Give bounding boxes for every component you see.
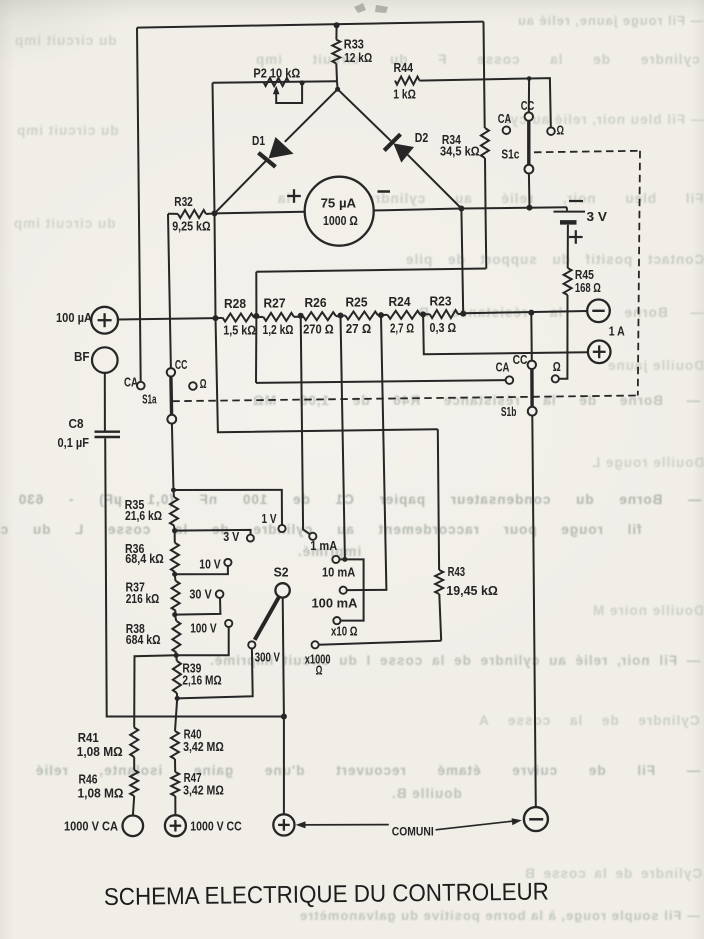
capacitor C8 [95, 432, 121, 437]
wire 3V tap [175, 530, 251, 535]
wire R40-R47 [174, 759, 176, 772]
switch S1a CC contact [167, 368, 175, 376]
wire R47 to 1000VCC terminal [174, 796, 176, 814]
wire: R44 net down to S1c CC contact [528, 79, 530, 113]
label R32 value 9,25 kΩ [172, 220, 210, 234]
contact 100 mA [340, 587, 347, 594]
arrow COMUNI to - terminal [436, 818, 522, 830]
svg-text:x10 Ω: x10 Ω [331, 624, 358, 638]
switch S1c moving contact circle [525, 165, 534, 174]
svg-text:CA: CA [496, 360, 510, 374]
svg-text:R44: R44 [394, 61, 414, 75]
svg-text:R25: R25 [346, 296, 368, 310]
svg-text:1 kΩ: 1 kΩ [393, 87, 416, 101]
wire: bridge right corner down to R23 right end [461, 209, 463, 314]
node: chain left end junction [213, 315, 219, 321]
switch S1b omega contact [552, 375, 559, 382]
switch S1c CC contact [525, 112, 533, 120]
wire down to +COMUNI terminal [283, 717, 285, 814]
label battery - sign [569, 200, 583, 202]
wire: R33 bottom to bridge apex [336, 81, 339, 89]
wire x1000 contact to R43 bottom [319, 641, 442, 645]
svg-text:R27: R27 [264, 297, 286, 311]
node J5 [174, 653, 179, 658]
svg-text:2,16 MΩ: 2,16 MΩ [182, 674, 221, 688]
selector S2 wiper arm to 300V position [255, 597, 279, 640]
wire 1V tap [174, 490, 283, 525]
wire: R44 right lead to S1c omega contact [420, 78, 551, 127]
label 10 V [199, 558, 221, 572]
contact x1000 ohm [312, 641, 319, 648]
resistor R41 [130, 728, 138, 758]
svg-text:3 V: 3 V [223, 530, 240, 544]
labels R28 [223, 297, 256, 338]
label CC of S1b [513, 353, 528, 367]
wire 100V tap [176, 627, 229, 655]
node ladder top J1 [171, 488, 176, 493]
svg-text:Ω: Ω [553, 360, 561, 374]
label 1000 V CC [190, 819, 241, 833]
svg-text:R28: R28 [224, 297, 246, 311]
svg-text:BF: BF [74, 350, 90, 364]
node R23 right junction [460, 311, 466, 317]
wire J6 to R40 column [175, 698, 177, 731]
label P2 10 kΩ [253, 66, 300, 80]
labels R43 [446, 565, 498, 598]
label x1000 [305, 653, 331, 678]
contact 3 V [247, 535, 254, 542]
wire: to S1b CA contact [256, 380, 506, 383]
node: S1c CC tap on R44 wire [527, 76, 532, 81]
label 1 A [609, 325, 625, 339]
svg-text:0,1 µF: 0,1 µF [58, 436, 90, 450]
svg-text:R45: R45 [575, 268, 594, 282]
label omega of S1c [557, 124, 565, 138]
label 300 V [255, 650, 281, 664]
svg-text:3,42 MΩ: 3,42 MΩ [183, 740, 224, 754]
node: R33 top junction [334, 22, 340, 28]
wire chain-left column down to R43 top wire [216, 318, 438, 432]
wire: top edge of schematic [137, 22, 484, 28]
label meter + polarity [287, 189, 301, 203]
switch S1b CA contact [506, 376, 514, 384]
label 100 V [190, 621, 217, 635]
label meter 75 uA [321, 196, 357, 210]
svg-text:S2: S2 [274, 565, 289, 579]
labels R39 [182, 661, 221, 687]
node R26/R25 junction [338, 313, 344, 319]
labels R47 [183, 771, 224, 797]
switch S1a omega contact [189, 382, 197, 390]
battery B1 3V positive plate [554, 207, 586, 211]
svg-text:CA: CA [124, 375, 138, 389]
label 3 V [223, 530, 240, 544]
svg-text:19,45 kΩ: 19,45 kΩ [446, 584, 498, 598]
wire: R45 down across current wires to S1b omega contact [559, 295, 568, 379]
svg-text:1000 V CA: 1000 V CA [64, 820, 118, 834]
label R45 value 168 ohm [575, 281, 601, 295]
svg-text:CC: CC [175, 358, 188, 372]
label battery 3 V [587, 210, 608, 224]
svg-text:Ω: Ω [200, 377, 207, 391]
contact 1 mA [309, 533, 316, 540]
svg-text:12 kΩ: 12 kΩ [344, 51, 372, 65]
svg-text:R23: R23 [430, 295, 452, 309]
labels R35 [125, 498, 163, 523]
switch S1b CC contact [528, 361, 536, 369]
svg-text:3 V: 3 V [587, 210, 608, 224]
wire: main chain to -1A terminal [463, 311, 587, 313]
svg-text:100 V: 100 V [190, 621, 217, 635]
svg-text:21,6 kΩ: 21,6 kΩ [125, 509, 162, 523]
svg-text:CC: CC [521, 99, 535, 113]
labels R37 [126, 581, 160, 606]
wire BF to C8 [104, 373, 106, 431]
node J4 [172, 612, 177, 617]
svg-text:300 V: 300 V [255, 650, 281, 664]
wire: S1c to meter wire junction [528, 174, 531, 208]
svg-text:1,08 MΩ: 1,08 MΩ [78, 787, 124, 801]
resistor R46 [130, 770, 138, 796]
label D1 [252, 134, 265, 148]
svg-text:30 V: 30 V [189, 588, 212, 602]
svg-text:2,7 Ω: 2,7 Ω [390, 322, 414, 336]
label CC of S1c [521, 99, 535, 113]
svg-text:3,42 MΩ: 3,42 MΩ [183, 783, 224, 797]
resistor R36 [171, 531, 179, 575]
label R44 [394, 61, 414, 75]
arrow COMUNI to + terminal [296, 821, 389, 828]
svg-text:1 mA: 1 mA [310, 539, 337, 553]
contact 1 V [278, 525, 285, 532]
svg-text:R26: R26 [305, 296, 327, 310]
wire J5 to R41 column [134, 655, 176, 727]
dashed control-box outline right [638, 151, 640, 396]
wiper of P2 with arrow [273, 83, 302, 103]
label CA of S1b [496, 360, 510, 374]
wire: 100uA terminal to chain left junction [118, 318, 216, 319]
wire: bridge left corner to meter [215, 212, 305, 214]
resistor R40 [171, 731, 179, 759]
switch S1a CA contact [137, 382, 145, 390]
switch S1a moving contact circle [167, 415, 176, 424]
diode D1 [215, 89, 338, 213]
terminal +1A [588, 341, 611, 364]
svg-text:100 mA: 100 mA [312, 596, 358, 610]
label x10 ohm [331, 624, 358, 638]
svg-text:10 mA: 10 mA [322, 565, 355, 579]
label R34 [442, 133, 461, 147]
svg-text:216 kΩ: 216 kΩ [126, 592, 160, 606]
wire R46 to 1000VCA terminal [133, 796, 134, 816]
resistor chain R26 [301, 312, 341, 320]
contact 300 V [248, 641, 255, 648]
contact x10 ohm [333, 617, 340, 624]
label C8 [69, 417, 84, 431]
switch S1c CA contact [503, 126, 511, 134]
wire R41-R46 [133, 757, 135, 770]
wire: meter to bridge right corner [374, 209, 462, 211]
label S2 [274, 565, 289, 579]
svg-text:270 Ω: 270 Ω [303, 323, 334, 337]
resistor chain R25 [341, 312, 382, 320]
labels R40 [183, 727, 224, 753]
wire R26/R25 junction down to 10mA node [341, 316, 345, 560]
svg-text:168 Ω: 168 Ω [575, 281, 601, 295]
terminal - COMUNI [524, 807, 548, 831]
node R27/R26 junction [298, 313, 304, 319]
label S1b [501, 405, 517, 419]
dashed control-box outline top [534, 151, 640, 153]
wire: R34 bottom going left above chain [256, 269, 486, 272]
resistor chain R24 [381, 311, 423, 319]
node: S1c lower junction on meter wire [527, 205, 533, 211]
svg-text:Ω: Ω [316, 663, 323, 677]
svg-text:10 V: 10 V [199, 558, 221, 572]
svg-text:34,5 kΩ: 34,5 kΩ [440, 145, 480, 159]
label COMUNI [392, 827, 434, 839]
resistor R34 [481, 22, 489, 269]
terminal -1A [587, 300, 610, 323]
svg-text:R33: R33 [344, 38, 364, 52]
label R33 [344, 38, 364, 52]
wire S2 stem to common bottom wire [283, 598, 284, 717]
labels R38 [126, 622, 161, 647]
svg-text:100 µA: 100 µA [56, 311, 92, 325]
svg-text:CC: CC [513, 353, 528, 367]
scan smudge top [354, 3, 388, 13]
label 100 uA [56, 311, 92, 325]
wire: R24/R23 junction to +1A terminal [423, 314, 588, 354]
svg-text:27 Ω: 27 Ω [346, 322, 372, 336]
node R28/R27 junction [253, 313, 259, 319]
resistor R38 [172, 615, 180, 656]
node R25/R24 junction [378, 312, 384, 318]
contact 10 V [224, 559, 231, 566]
label omega of S1a [200, 377, 207, 391]
label CC of S1a [175, 358, 188, 372]
labels R24 [389, 295, 415, 336]
node: bridge right corner [458, 206, 464, 212]
label R32 [174, 195, 193, 209]
label meter - polarity [378, 190, 391, 193]
wire C8 down to common bottom wire [105, 438, 284, 716]
svg-text:R32: R32 [174, 195, 193, 209]
diode D2 [338, 89, 462, 208]
switch S1c omega contact [547, 127, 555, 135]
label meter 1000 ohm [323, 214, 358, 228]
svg-text:P2 10 kΩ: P2 10 kΩ [253, 66, 300, 80]
meter M 75 uA moving coil [305, 177, 374, 246]
svg-text:R24: R24 [389, 295, 411, 309]
labels R26 [303, 296, 334, 337]
battery B1 3V negative plate [560, 222, 577, 268]
contact 10 mA [332, 556, 345, 563]
label omega of S1b [553, 360, 561, 374]
svg-text:1,2 kΩ: 1,2 kΩ [263, 323, 294, 337]
svg-text:SCHEMA ELECTRIQUE DU CONTROLEU: SCHEMA ELECTRIQUE DU CONTROLEUR [104, 878, 549, 911]
labels R27 [263, 297, 294, 338]
wire 300V tap [177, 649, 253, 699]
terminal + COMUNI [273, 814, 294, 835]
dashed switch gang line S1a-S1b-S1c [172, 396, 638, 402]
labels R25 [346, 296, 372, 337]
terminal 1000 V CA [123, 816, 144, 837]
svg-text:R46: R46 [79, 773, 98, 787]
wire 10V tap [175, 566, 228, 574]
resistor chain R23 [423, 310, 463, 318]
wire 30V tap [175, 598, 221, 615]
labels R36 [125, 542, 164, 566]
label R45 [575, 268, 594, 282]
labels R23 [430, 295, 457, 336]
svg-text:75 µA: 75 µA [321, 196, 357, 210]
resistor R37 [172, 574, 180, 614]
resistor R32 [168, 210, 215, 218]
svg-text:S1c: S1c [501, 147, 519, 161]
wire R25/R24 junction down to 100mA contact [347, 315, 387, 590]
label 30 V [189, 588, 212, 602]
label CA of S1a [124, 375, 138, 389]
svg-text:D2: D2 [415, 131, 429, 145]
resistor R45 [564, 268, 572, 295]
label C8 value 0,1 uF [58, 436, 90, 450]
resistor R39 [173, 655, 181, 698]
label R33 value 12 kΩ [344, 51, 372, 65]
label BF [74, 350, 90, 364]
wire S1b down to -COMUNI terminal [532, 416, 536, 808]
wire: R34 net down through R28/R27 junction to S1b CA lead [255, 272, 257, 383]
resistor chain R28 [216, 314, 257, 322]
node: bridge apex junction [335, 87, 340, 92]
potentiometer P2 [264, 78, 290, 86]
wire: left edge down to S1a CA contact [137, 28, 141, 382]
svg-text:1000 V CC: 1000 V CC [190, 819, 241, 833]
contact 100 V [225, 620, 232, 627]
label 1 V [262, 512, 278, 526]
resistor R44 [395, 77, 420, 85]
switch S1b moving contact circle [528, 407, 537, 416]
svg-text:1 A: 1 A [609, 325, 625, 339]
svg-text:R41: R41 [78, 731, 99, 745]
node 10 mA tap [342, 557, 347, 562]
wire main wire to S1b CC [530, 313, 533, 361]
svg-text:68,4 kΩ: 68,4 kΩ [125, 552, 164, 566]
svg-text:Ω: Ω [557, 124, 565, 138]
node J2 [172, 528, 177, 533]
caption SCHEMA ELECTRIQUE DU CONTROLEUR [104, 878, 549, 911]
svg-text:S1b: S1b [501, 405, 517, 419]
svg-text:684 kΩ: 684 kΩ [126, 633, 161, 647]
resistor chain R27 [256, 313, 300, 321]
selector S2 hub [275, 583, 289, 597]
node R24/R23 junction [420, 311, 426, 317]
label 100 mA [312, 596, 358, 610]
node J6 [175, 696, 180, 701]
switch S1c bar [527, 121, 530, 165]
switch S1b bar [530, 369, 534, 407]
terminal BF [92, 347, 118, 373]
svg-text:1000 Ω: 1000 Ω [323, 214, 358, 228]
svg-text:R43: R43 [448, 565, 466, 579]
node common bottom wire junction [281, 714, 287, 720]
labels R46 [78, 773, 124, 801]
labels R41 [77, 731, 123, 759]
svg-text:S1a: S1a [142, 392, 157, 406]
label D2 [415, 131, 429, 145]
wire R27/R26 junction down to 1mA contact [301, 316, 310, 534]
wire 10mA node to x10 contact [341, 559, 364, 620]
label battery + sign [569, 230, 583, 244]
svg-text:1,5 kΩ: 1,5 kΩ [223, 324, 256, 338]
label CA of S1c [498, 112, 512, 126]
wire: meter line from bridge right corner to battery [461, 207, 567, 208]
resistor R43 [435, 429, 443, 640]
label R44 value 1 kΩ [393, 87, 416, 101]
svg-text:1,08 MΩ: 1,08 MΩ [77, 745, 123, 759]
node: P2 wiper connection [300, 80, 305, 85]
svg-text:1 V: 1 V [262, 512, 278, 526]
terminal 100 uA [91, 307, 118, 334]
node: bridge left corner [212, 210, 218, 216]
resistor R47 [171, 772, 179, 796]
wire: P2 net from S1a-CC column corner to apex [213, 81, 338, 83]
node S1b main-wire junction [528, 310, 534, 316]
wire S1a to voltage ladder top [172, 424, 174, 488]
label R34 value 34,5 kΩ [440, 145, 480, 159]
label 1000 V CA [64, 820, 118, 834]
svg-text:D1: D1 [252, 134, 265, 148]
resistor R35 [170, 490, 178, 531]
svg-text:COMUNI: COMUNI [392, 827, 434, 839]
terminal 1000 V CC [165, 815, 186, 836]
resistor R33 [332, 25, 340, 81]
contact 30 V [216, 590, 224, 598]
svg-text:9,25 kΩ: 9,25 kΩ [172, 220, 210, 234]
svg-text:C8: C8 [69, 417, 84, 431]
wire: P2 column from corner down through bridge-left to chain left end [213, 83, 216, 318]
svg-text:0,3 Ω: 0,3 Ω [430, 321, 457, 335]
switch S1a bar [169, 377, 173, 415]
label 10 mA [322, 565, 355, 579]
node J3 [172, 572, 177, 577]
label S1a [142, 392, 157, 406]
label S1c [501, 147, 519, 161]
wire: R32 left end down to S1a CC contact [168, 214, 171, 368]
label 1 mA [310, 539, 337, 553]
svg-text:CA: CA [498, 112, 512, 126]
